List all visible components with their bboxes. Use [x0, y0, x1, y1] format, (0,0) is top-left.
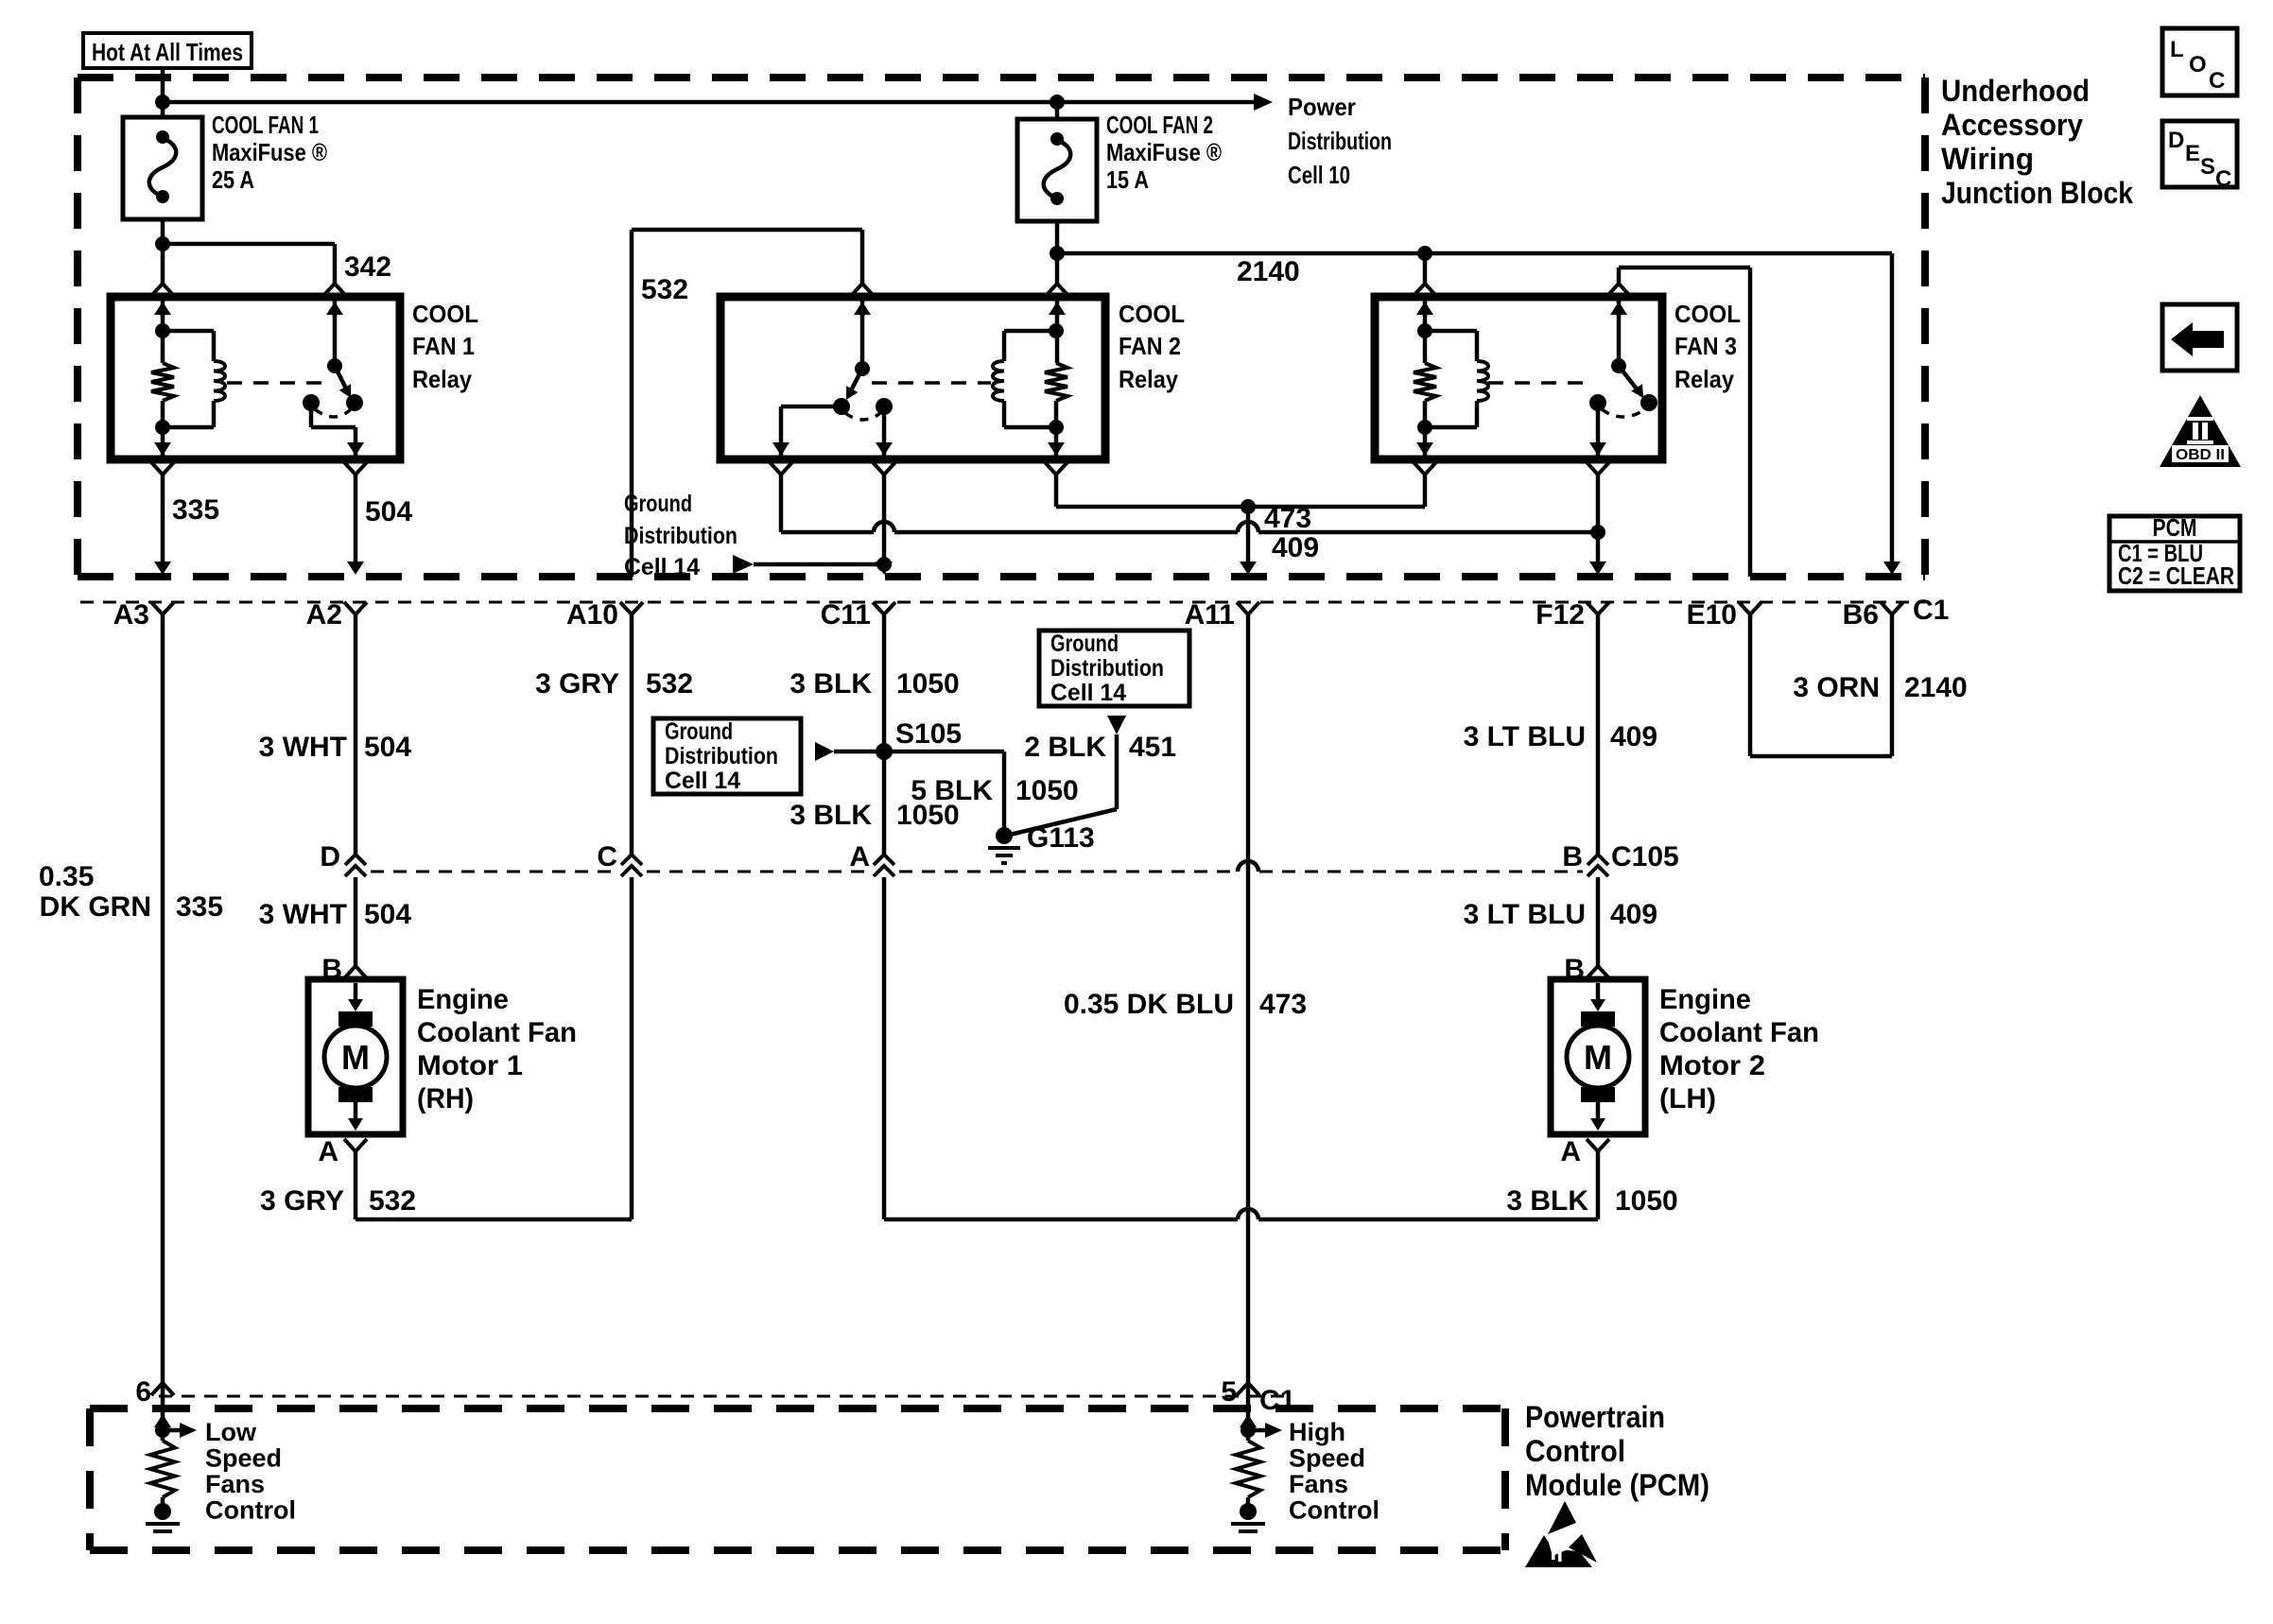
svg-text:F12: F12: [1536, 599, 1585, 631]
svg-text:A3: A3: [113, 599, 149, 631]
svg-text:1050: 1050: [1615, 1185, 1678, 1217]
svg-text:FAN 3: FAN 3: [1674, 332, 1737, 360]
svg-text:Underhood: Underhood: [1941, 74, 2090, 108]
svg-text:C1: C1: [1913, 595, 1949, 626]
svg-text:504: 504: [364, 732, 411, 763]
svg-text:A: A: [849, 841, 870, 872]
svg-text:Coolant Fan: Coolant Fan: [417, 1017, 577, 1048]
svg-text:COOL: COOL: [412, 300, 478, 328]
svg-text:O: O: [2189, 52, 2207, 78]
svg-text:High: High: [1289, 1418, 1345, 1446]
svg-text:Cell 14: Cell 14: [624, 554, 700, 580]
svg-text:342: 342: [344, 251, 391, 283]
svg-text:Motor 1: Motor 1: [417, 1050, 523, 1081]
svg-text:(LH): (LH): [1659, 1083, 1716, 1114]
svg-text:Hot At All Times: Hot At All Times: [92, 38, 243, 66]
svg-text:2140: 2140: [1237, 256, 1300, 287]
svg-text:504: 504: [365, 496, 412, 527]
svg-text:MaxiFuse ®: MaxiFuse ®: [212, 138, 327, 166]
svg-text:COOL: COOL: [1119, 300, 1185, 328]
svg-text:A10: A10: [566, 599, 618, 631]
svg-text:3 BLK: 3 BLK: [789, 800, 872, 831]
svg-text:25 A: 25 A: [212, 165, 254, 194]
svg-text:L: L: [2170, 37, 2184, 62]
svg-text:MaxiFuse ®: MaxiFuse ®: [1106, 138, 1222, 166]
svg-text:Engine: Engine: [417, 984, 509, 1015]
svg-text:Module (PCM): Module (PCM): [1525, 1468, 1709, 1502]
svg-text:A2: A2: [306, 599, 342, 631]
svg-text:532: 532: [641, 274, 688, 305]
svg-text:Distribution: Distribution: [1288, 127, 1392, 155]
svg-text:COOL FAN 2: COOL FAN 2: [1106, 111, 1213, 139]
svg-text:Low: Low: [205, 1418, 257, 1446]
svg-text:15 A: 15 A: [1106, 165, 1149, 194]
svg-text:504: 504: [364, 899, 411, 930]
svg-text:409: 409: [1272, 532, 1319, 563]
svg-text:D: D: [2168, 128, 2184, 153]
svg-text:335: 335: [176, 891, 223, 923]
svg-text:Ground: Ground: [624, 491, 692, 517]
svg-text:0.35: 0.35: [39, 861, 94, 892]
svg-text:3 LT BLU: 3 LT BLU: [1464, 721, 1586, 752]
svg-text:5: 5: [1221, 1376, 1237, 1408]
svg-text:Relay: Relay: [412, 365, 472, 393]
svg-text:Junction Block: Junction Block: [1941, 176, 2133, 210]
svg-text:Speed: Speed: [205, 1444, 282, 1473]
svg-text:COOL FAN 1: COOL FAN 1: [212, 111, 319, 139]
svg-text:C: C: [2209, 68, 2225, 94]
svg-text:Motor 2: Motor 2: [1659, 1050, 1765, 1081]
svg-text:Ground: Ground: [1050, 631, 1119, 657]
svg-text:DK GRN: DK GRN: [40, 891, 151, 923]
svg-text:Coolant Fan: Coolant Fan: [1659, 1017, 1819, 1048]
svg-text:409: 409: [1610, 721, 1657, 752]
svg-text:Control: Control: [205, 1496, 296, 1525]
svg-text:Cell 14: Cell 14: [1050, 680, 1126, 706]
svg-text:Cell 14: Cell 14: [665, 768, 740, 794]
svg-text:Distribution: Distribution: [665, 743, 778, 769]
svg-text:A: A: [1560, 1136, 1581, 1167]
svg-text:C: C: [2215, 166, 2231, 192]
svg-text:2 BLK: 2 BLK: [1024, 732, 1106, 763]
svg-text:3 BLK: 3 BLK: [1506, 1185, 1588, 1217]
svg-text:473: 473: [1259, 989, 1307, 1020]
svg-text:532: 532: [646, 668, 693, 700]
svg-text:Wiring: Wiring: [1941, 142, 2034, 176]
svg-text:473: 473: [1264, 503, 1311, 534]
svg-text:FAN 2: FAN 2: [1119, 332, 1181, 360]
svg-text:3 WHT: 3 WHT: [259, 732, 347, 763]
svg-text:C2 = CLEAR: C2 = CLEAR: [2118, 561, 2234, 590]
svg-text:Distribution: Distribution: [1050, 655, 1164, 682]
svg-text:Relay: Relay: [1119, 365, 1178, 393]
svg-text:451: 451: [1129, 732, 1176, 763]
svg-text:532: 532: [369, 1185, 416, 1217]
svg-text:3 LT BLU: 3 LT BLU: [1464, 899, 1586, 930]
svg-text:Engine: Engine: [1659, 984, 1751, 1015]
svg-text:409: 409: [1610, 899, 1657, 930]
svg-text:1050: 1050: [1015, 775, 1079, 806]
svg-text:Accessory: Accessory: [1941, 108, 2083, 142]
svg-text:Cell 10: Cell 10: [1288, 161, 1350, 189]
svg-text:Control: Control: [1289, 1496, 1379, 1525]
svg-text:C105: C105: [1611, 841, 1679, 872]
svg-text:S: S: [2200, 154, 2215, 180]
svg-text:3 BLK: 3 BLK: [789, 668, 872, 700]
svg-text:1050: 1050: [896, 800, 960, 831]
svg-text:Fans: Fans: [1289, 1470, 1348, 1498]
svg-text:(RH): (RH): [417, 1083, 474, 1114]
svg-text:3 ORN: 3 ORN: [1793, 672, 1880, 703]
svg-text:M: M: [341, 1038, 370, 1077]
svg-text:D: D: [320, 841, 340, 872]
svg-text:1050: 1050: [896, 668, 960, 700]
svg-text:FAN 1: FAN 1: [412, 332, 475, 360]
svg-text:S105: S105: [895, 718, 962, 750]
svg-text:3 WHT: 3 WHT: [259, 899, 347, 930]
svg-text:Relay: Relay: [1674, 365, 1734, 393]
svg-text:Fans: Fans: [205, 1470, 265, 1498]
svg-text:E: E: [2185, 141, 2200, 166]
svg-text:A11: A11: [1185, 599, 1235, 631]
svg-text:Control: Control: [1525, 1434, 1625, 1468]
svg-text:E10: E10: [1687, 599, 1737, 631]
svg-text:B: B: [1562, 841, 1583, 872]
svg-text:C: C: [597, 841, 617, 872]
svg-text:Powertrain: Powertrain: [1525, 1400, 1665, 1434]
svg-text:Power: Power: [1288, 93, 1356, 121]
svg-text:B6: B6: [1843, 599, 1879, 631]
svg-text:Speed: Speed: [1289, 1444, 1365, 1473]
svg-text:Distribution: Distribution: [624, 523, 737, 549]
svg-text:C11: C11: [821, 599, 871, 631]
svg-text:3 GRY: 3 GRY: [260, 1185, 344, 1217]
svg-text:A: A: [318, 1136, 338, 1167]
svg-text:COOL: COOL: [1674, 300, 1741, 328]
svg-text:PCM: PCM: [2153, 513, 2197, 542]
svg-text:335: 335: [172, 494, 219, 526]
svg-text:6: 6: [135, 1376, 151, 1408]
svg-text:3 GRY: 3 GRY: [535, 668, 619, 700]
svg-text:OBD II: OBD II: [2176, 447, 2225, 463]
svg-text:2140: 2140: [1904, 672, 1968, 703]
svg-text:0.35 DK BLU: 0.35 DK BLU: [1064, 989, 1234, 1020]
svg-text:M: M: [1584, 1038, 1612, 1077]
svg-text:Ground: Ground: [665, 718, 733, 745]
